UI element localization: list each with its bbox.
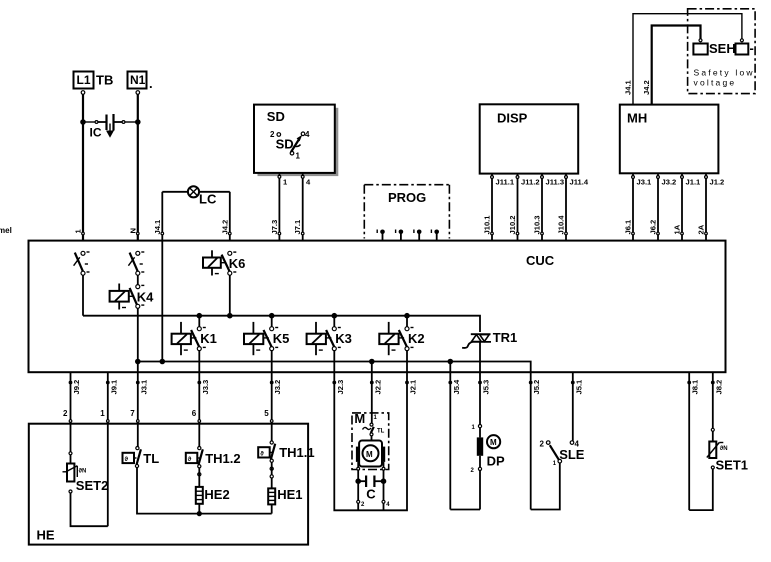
capacitor C [355, 476, 386, 502]
switch contact L1 (mains relay contact) [74, 251, 90, 275]
pin J6.1 at CUC top [624, 219, 635, 235]
relay K3 [307, 316, 352, 356]
pin J2.1 at CUC bottom [406, 379, 418, 395]
svg-text:J10.3: J10.3 [533, 215, 542, 234]
triac TR1 [462, 330, 517, 348]
pin J3.1 at CUC bottom [137, 379, 149, 395]
wire SD pin 4 to CUC J7.1 [301, 173, 311, 241]
selector switch SD box [254, 105, 338, 177]
relay K5 [244, 316, 289, 356]
PROG pin 4 stub [431, 230, 439, 241]
pin J6.2 at CUC top [649, 220, 660, 235]
pin J4.2 at CUC top [220, 220, 231, 235]
wire N1 neutral down to CUC pin N [137, 95, 139, 241]
svg-text:J1.2: J1.2 [710, 178, 725, 187]
svg-text:J7.1: J7.1 [293, 219, 302, 235]
pin 1 at CUC top (L1) [74, 229, 85, 235]
thermostat TH1.1 [258, 441, 314, 462]
svg-text:1A: 1A [673, 224, 682, 234]
level switch SLE [531, 372, 585, 509]
svg-text:J9.2: J9.2 [72, 380, 81, 395]
wire MH J1.1 to CUC 1A [681, 173, 701, 240]
pin J5.3 at CUC bottom [479, 380, 491, 395]
pin J10.3 at CUC top [533, 215, 544, 234]
pin J9.2 at CUC bottom [69, 380, 81, 395]
svg-text:TB: TB [96, 73, 113, 88]
node junction lamp return on lower bus [160, 359, 166, 365]
PROG pin 3 stub [414, 230, 422, 241]
wire N1 contact to K4 contact [137, 275, 139, 285]
pin J8.1 at CUC bottom [688, 379, 700, 395]
wire SET2 loop bottom [71, 493, 108, 526]
wire MH J1.2 to CUC 2A [705, 173, 725, 240]
svg-text:J1.1: J1.1 [686, 178, 702, 187]
wire J3.1 down to TL [137, 372, 140, 446]
svg-text:TR1: TR1 [493, 330, 518, 345]
wire lamp right leg J4.2 down to CUC [229, 192, 231, 241]
PROG pin 1 stub [377, 230, 385, 241]
svg-text:J3.3: J3.3 [201, 380, 210, 395]
pin J3.2 at CUC bottom [270, 380, 282, 395]
svg-text:HE1: HE1 [277, 487, 302, 502]
relay K6 [203, 250, 245, 275]
svg-text:L1: L1 [77, 73, 91, 87]
svg-text:J6.2: J6.2 [649, 220, 658, 235]
node junction J2.2 on lower bus [369, 359, 375, 365]
svg-text:TH1.2: TH1.2 [205, 451, 240, 466]
motor M winding [356, 441, 385, 467]
svg-text:J8.1: J8.1 [691, 379, 700, 395]
wire K5 contact down to pin J3.2 [271, 350, 273, 372]
wire DISP J11.1 to CUC J10.1 [491, 174, 515, 241]
wire motor U loop J2.3 to J2.1 [334, 372, 407, 510]
svg-text:J8.2: J8.2 [714, 380, 723, 395]
node junction K6 wire on upper bus [227, 313, 233, 319]
wire K4 contact down to lower bus and pin J3.1 [137, 308, 139, 372]
svg-text:IC: IC [90, 126, 102, 140]
relay K4 [110, 284, 155, 310]
wire K3 contact down to pin J2.3 [333, 350, 335, 372]
svg-text:7: 7 [130, 409, 135, 418]
svg-text:ϑN: ϑN [79, 469, 87, 475]
wire DISP J11.2 to CUC J10.2 [516, 174, 539, 241]
wire J3.2 down to TH1.1 [270, 372, 273, 441]
sensor SET1 (NTC) [689, 372, 748, 510]
lamp LC [162, 186, 230, 206]
svg-text:CUC: CUC [526, 253, 555, 268]
terminal N1 of terminal block TB [128, 72, 153, 95]
connector PROG (dash-dot box) [364, 185, 449, 239]
svg-text:N1: N1 [130, 73, 146, 87]
svg-text:J3.1: J3.1 [139, 379, 148, 395]
wire SEH square1 to MH J4.2 [652, 26, 701, 105]
svg-text:6: 6 [192, 409, 197, 418]
svg-text:TH1.1: TH1.1 [279, 445, 314, 460]
wire J2.2 down to motor pin 1 [371, 372, 373, 425]
PROG pin 2 stub [396, 230, 404, 241]
switch contact N1 (mains relay contact) [128, 251, 144, 275]
pin J10.2 at CUC top [508, 215, 519, 234]
svg-text:HE2: HE2 [204, 487, 229, 502]
pin 1A at CUC top [673, 224, 684, 235]
thermal protector TL inside motor [363, 423, 385, 440]
thermostat TL [123, 447, 160, 468]
svg-text:5: 5 [264, 409, 269, 418]
svg-text:J5.1: J5.1 [574, 379, 583, 395]
motor pin 4 [382, 500, 390, 510]
svg-text:C: C [366, 487, 376, 502]
motor unit M (dash-dot box) [352, 411, 389, 470]
svg-text:SEH: SEH [709, 41, 736, 56]
relay K2 [379, 316, 424, 356]
svg-text:1: 1 [296, 152, 301, 161]
controller unit CUC box [29, 241, 726, 373]
pin J10.4 at CUC top [557, 215, 568, 235]
wire lamp left leg J4.1 down to CUC [161, 192, 163, 241]
svg-text:K5: K5 [273, 331, 290, 346]
safety module SEH (dash-dot box) [688, 9, 756, 94]
node junction J5.4 on lower bus [448, 359, 454, 365]
wire SEH square2 to MH J4.1 [633, 14, 742, 105]
svg-text:ϑ: ϑ [188, 457, 192, 463]
wire DISP J11.4 to CUC J10.4 [565, 174, 589, 241]
node junction K2 on upper bus [404, 313, 410, 319]
pin J2.3 at CUC bottom [333, 380, 345, 395]
svg-text:J5.2: J5.2 [532, 380, 541, 395]
svg-text:K4: K4 [137, 290, 154, 305]
svg-text:J4.2: J4.2 [642, 80, 651, 95]
svg-text:N: N [128, 228, 137, 233]
svg-text:2A: 2A [697, 224, 706, 234]
wire MH J3.1 to CUC J6.1 [632, 173, 652, 240]
wire motor left lead down [357, 462, 360, 500]
svg-text:K3: K3 [335, 331, 352, 346]
pin N at CUC top (N1) [128, 228, 139, 235]
svg-text:J3.2: J3.2 [662, 178, 677, 187]
wire TL down and heater bottom bus [137, 468, 272, 514]
svg-text:2: 2 [63, 409, 68, 418]
svg-text:M: M [366, 450, 373, 459]
svg-text:DISP: DISP [497, 110, 528, 125]
svg-text:DP: DP [487, 454, 505, 469]
pin J5.4 at CUC bottom [449, 379, 461, 395]
svg-text:MH: MH [627, 111, 647, 126]
svg-text:1: 1 [100, 409, 105, 418]
svg-text:4: 4 [305, 130, 310, 139]
display module DISP [480, 104, 579, 173]
svg-text:SET2: SET2 [76, 478, 109, 493]
svg-text:J5.3: J5.3 [482, 380, 491, 395]
svg-text:SD: SD [276, 137, 294, 152]
pin J7.3 at CUC top [270, 220, 281, 235]
pin J4.1 at CUC top [153, 219, 164, 235]
svg-text:-: - [750, 41, 754, 56]
svg-text:SLE: SLE [559, 447, 585, 462]
wire TR1 down to pin J5.3 [479, 342, 481, 373]
pin J8.2 at CUC bottom [712, 380, 724, 395]
svg-text:J10.2: J10.2 [508, 215, 517, 234]
svg-text:J10.1: J10.1 [483, 215, 492, 235]
upper bus wire inside CUC [83, 316, 480, 332]
wire lower bus down to pin J2.2 [371, 362, 373, 373]
SEH sensor square 1 [693, 39, 707, 55]
pin J5.1 at CUC bottom [572, 379, 584, 395]
svg-text:HE: HE [37, 528, 55, 543]
svg-text:voltage: voltage [694, 78, 737, 88]
heating element HE2 [196, 468, 230, 514]
pin J5.2 at CUC bottom [529, 380, 541, 395]
svg-text:J2.3: J2.3 [336, 380, 345, 395]
wire lower bus down to pin J5.4 [449, 362, 451, 373]
svg-text:J2.2: J2.2 [373, 380, 382, 395]
svg-text:K1: K1 [200, 331, 217, 346]
sensor SET2 (NTC) [63, 452, 109, 493]
svg-text:Safety low: Safety low [694, 68, 755, 78]
terminal L1 of terminal block TB [74, 72, 114, 95]
cut-off text at left margin [0, 226, 12, 248]
svg-text:J2.1: J2.1 [409, 379, 418, 395]
pin J10.1 at CUC top [483, 215, 494, 235]
svg-text:TL: TL [143, 451, 159, 466]
wire DISP J11.3 to CUC J10.3 [541, 174, 564, 241]
svg-text:2: 2 [270, 130, 275, 139]
svg-text:LC: LC [199, 192, 217, 207]
thermostat TH1.2 [186, 447, 241, 468]
SEH sensor square 2 [736, 39, 749, 55]
svg-text:SD: SD [267, 109, 285, 124]
svg-text:J3.1: J3.1 [637, 178, 653, 187]
wire L1 contact to upper bus [82, 275, 84, 316]
wire J4.1 lamp return down to lower bus [161, 241, 163, 362]
svg-text:ϑ: ϑ [260, 451, 264, 457]
wire motor right lead down [382, 462, 385, 500]
drain pump DP [450, 372, 505, 509]
node junction K1 on upper bus [197, 313, 203, 319]
wire J9.2 down into HE [69, 372, 72, 452]
svg-text:mel: mel [0, 226, 12, 235]
svg-text:TL: TL [377, 429, 385, 435]
svg-text:M: M [490, 438, 497, 447]
svg-text:J11.3: J11.3 [546, 178, 565, 187]
wire J3.3 down to TH1.2 [198, 372, 201, 446]
wire L1 phase down to CUC pin 1 [82, 95, 84, 241]
pin 2A at CUC top [697, 224, 708, 235]
wire K1 contact down to pin J3.3 [198, 350, 200, 372]
node junction K5 on upper bus [269, 313, 275, 319]
svg-text:J11.1: J11.1 [496, 178, 515, 187]
pin J2.2 at CUC bottom [371, 380, 383, 395]
ground arrow of IC [106, 124, 114, 138]
relay K1 [172, 316, 217, 356]
svg-text:2: 2 [540, 440, 545, 449]
wire SD pin 1 to CUC J7.3 [278, 173, 288, 241]
svg-text:PROG: PROG [388, 190, 426, 205]
heating element HE1 [268, 462, 302, 513]
svg-text:J4.1: J4.1 [153, 219, 162, 235]
heater assembly box HE [29, 424, 308, 545]
wire K6 contact down to upper bus [229, 275, 231, 316]
svg-text:K6: K6 [229, 256, 246, 271]
wire K2 contact down to pin J2.1 [406, 350, 408, 372]
pin J9.1 at CUC bottom [107, 379, 119, 395]
svg-text:J10.4: J10.4 [557, 215, 566, 235]
svg-text:SET1: SET1 [716, 458, 749, 473]
svg-text:J7.3: J7.3 [270, 220, 279, 235]
svg-text:J9.1: J9.1 [109, 379, 118, 395]
svg-text:J6.1: J6.1 [624, 219, 633, 235]
svg-text:J4.1: J4.1 [624, 79, 633, 95]
pin J3.3 at CUC bottom [198, 380, 210, 395]
motor pin 2 [357, 500, 365, 510]
node junction HE2 on heater bus [197, 511, 202, 516]
svg-text:K2: K2 [408, 331, 425, 346]
motor module MH [620, 105, 719, 174]
node junction K3 on upper bus [332, 313, 338, 319]
pin J7.1 at CUC top [293, 219, 304, 235]
svg-text:J5.4: J5.4 [452, 379, 461, 395]
svg-text:J11.4: J11.4 [570, 178, 589, 187]
node junction K4 wire on lower bus [135, 359, 141, 365]
svg-text:ϑN: ϑN [720, 446, 728, 452]
wire J9.1 down into HE [107, 372, 110, 526]
svg-text:ϑ: ϑ [125, 457, 129, 463]
capacitor IC (interference suppressor) [80, 114, 140, 140]
wire MH J3.2 to CUC J6.2 [657, 173, 677, 240]
svg-text:.: . [149, 76, 153, 91]
svg-text:J11.2: J11.2 [521, 178, 540, 187]
svg-text:J4.2: J4.2 [220, 220, 229, 235]
svg-text:J3.2: J3.2 [273, 380, 282, 395]
lower bus wire inside CUC [138, 362, 531, 373]
svg-text:M: M [354, 411, 365, 426]
